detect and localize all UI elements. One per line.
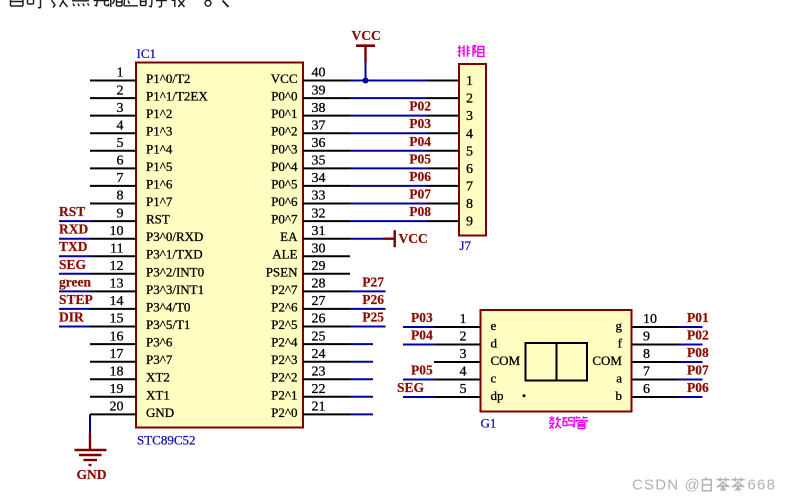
IC IC1 STC89C52 body <box>136 46 303 448</box>
svg-text:15: 15 <box>110 312 124 327</box>
svg-text:GND: GND <box>77 467 107 482</box>
wire stub pin 22 <box>350 396 373 398</box>
7-segment display G1 (数码管) body <box>481 310 632 431</box>
svg-text:16: 16 <box>110 329 124 344</box>
wire pin 34 to J7 <box>350 169 431 186</box>
G1 pin 2 (d) <box>435 330 498 351</box>
wire + net label P27 <box>350 274 386 291</box>
G1 decimal point dot <box>523 394 526 397</box>
svg-text:26: 26 <box>312 312 326 327</box>
svg-text:35: 35 <box>312 154 326 169</box>
IC1 pin 11 (P3^1/TXD) <box>90 241 203 261</box>
svg-text:CSDN @: CSDN @ <box>632 477 701 494</box>
IC1 pin 12 (P3^2/INT0) <box>90 259 204 279</box>
svg-text:green: green <box>59 274 91 289</box>
IC1 pin 22 (P2^1) <box>271 382 350 402</box>
wire EA to VCC <box>350 238 383 240</box>
svg-text:f: f <box>618 336 623 351</box>
svg-text:P0^6: P0^6 <box>271 194 298 209</box>
svg-text:38: 38 <box>312 101 326 116</box>
wire + net label P07 <box>679 363 709 380</box>
svg-text:EA: EA <box>280 229 298 244</box>
svg-text:P0^3: P0^3 <box>271 141 297 156</box>
wire + net label SEG <box>59 257 90 274</box>
svg-text:3: 3 <box>460 347 467 362</box>
IC1 pin 13 (P3^3/INT1) <box>90 277 204 297</box>
G1 digit glyph rectangle <box>526 343 588 381</box>
svg-text:d: d <box>491 336 498 351</box>
J7 pin 7 <box>427 180 473 195</box>
svg-text:P05: P05 <box>409 151 431 166</box>
svg-text:5: 5 <box>466 144 473 159</box>
svg-text:19: 19 <box>110 382 124 397</box>
wire + net label RST <box>59 204 90 221</box>
svg-text:3: 3 <box>466 109 473 124</box>
resistor network J7 (排阻) body <box>459 64 486 253</box>
svg-text:RST: RST <box>146 212 170 227</box>
wire pin 32 to J7 <box>350 204 431 221</box>
IC1 pin 18 (XT2) <box>90 364 170 384</box>
IC1 pin 24 (P2^3) <box>271 347 350 367</box>
wire pin 35 to J7 <box>350 151 431 168</box>
power VCC (top) <box>352 28 381 81</box>
G1 pin 3 (COM) <box>434 347 521 368</box>
svg-text:COM: COM <box>592 353 622 368</box>
svg-text:RST: RST <box>59 204 85 219</box>
IC1 pin 26 (P2^5) <box>271 312 350 332</box>
svg-text:P2^7: P2^7 <box>271 282 298 297</box>
wire stub pin 21 <box>350 413 373 415</box>
svg-text:1: 1 <box>466 74 473 89</box>
svg-text:b: b <box>616 388 623 403</box>
svg-text:P0^5: P0^5 <box>271 176 297 191</box>
svg-text:P1^7: P1^7 <box>146 194 173 209</box>
svg-text:P06: P06 <box>409 169 431 184</box>
svg-text:20: 20 <box>110 400 124 415</box>
IC1 pin 7 (P1^6) <box>90 171 173 191</box>
svg-text:P3^5/T1: P3^5/T1 <box>146 317 190 332</box>
wire + net label P06 <box>679 380 709 397</box>
IC1 pin 1 (P1^0/T2) <box>90 66 190 86</box>
svg-text:P25: P25 <box>362 310 384 325</box>
wire + net label SEG <box>397 380 435 397</box>
svg-text:P0^4: P0^4 <box>271 159 298 174</box>
G1 pin 1 (e) <box>435 312 497 333</box>
svg-text:P03: P03 <box>409 116 431 131</box>
IC1 pin 8 (P1^7) <box>90 189 173 209</box>
IC1 pin 2 (P1^1/T2EX) <box>90 83 208 103</box>
svg-text:a: a <box>616 371 622 386</box>
svg-text:10: 10 <box>110 224 124 239</box>
svg-text:P04: P04 <box>411 328 433 343</box>
IC1 pin 23 (P2^2) <box>271 364 350 384</box>
svg-text:P2^0: P2^0 <box>271 405 297 420</box>
svg-text:668: 668 <box>748 477 777 494</box>
J7 pin 6 <box>427 162 473 177</box>
svg-text:P08: P08 <box>409 204 431 219</box>
IC1 pin 3 (P1^2) <box>90 101 172 121</box>
G1 pin 4 (c) <box>435 365 497 386</box>
svg-text:IC1: IC1 <box>137 46 157 61</box>
wire pin20 to ground <box>89 414 91 433</box>
IC1 pin 15 (P3^5/T1) <box>90 312 190 332</box>
svg-text:VCC: VCC <box>399 231 428 246</box>
svg-text:P0^1: P0^1 <box>271 106 297 121</box>
IC1 pin 20 (GND) <box>90 400 174 420</box>
svg-text:P2^3: P2^3 <box>271 352 297 367</box>
IC1 pin 33 (P0^6) <box>271 189 350 209</box>
power VCC (EA pull) <box>383 230 428 247</box>
svg-text:P02: P02 <box>409 99 431 114</box>
svg-text:4: 4 <box>117 118 124 133</box>
svg-text:P1^0/T2: P1^0/T2 <box>146 71 190 86</box>
svg-text:P3^0/RXD: P3^0/RXD <box>146 229 203 244</box>
svg-text:7: 7 <box>466 180 473 195</box>
wire + net label P02 <box>679 328 709 345</box>
svg-text:dp: dp <box>491 388 504 403</box>
wire + net label P04 <box>403 328 435 345</box>
svg-text:PSEN: PSEN <box>266 264 298 279</box>
svg-text:2: 2 <box>460 330 467 345</box>
svg-text:34: 34 <box>312 171 326 186</box>
J7 pin 1 <box>427 74 473 89</box>
svg-text:TXD: TXD <box>59 239 88 254</box>
svg-text:XT2: XT2 <box>146 370 170 385</box>
svg-text:P3^4/T0: P3^4/T0 <box>146 299 190 314</box>
svg-text:P05: P05 <box>411 363 433 378</box>
wire + net label P05 <box>403 363 435 380</box>
IC1 pin 40 (VCC) <box>271 66 350 86</box>
wire + net label P25 <box>350 310 386 327</box>
wire + net label STEP <box>59 292 93 309</box>
svg-text:33: 33 <box>312 189 326 204</box>
IC1 pin 16 (P3^6) <box>90 329 173 349</box>
J7 pin 9 <box>427 215 473 230</box>
label 排阻 (resistor pack) <box>458 45 470 57</box>
svg-text:37: 37 <box>312 118 326 133</box>
J7 pin 3 <box>427 109 473 124</box>
wire + net label RXD <box>59 222 90 239</box>
J7 pin 5 <box>427 144 473 159</box>
IC1 pin 31 (EA) <box>280 224 350 244</box>
svg-text:11: 11 <box>110 241 123 256</box>
svg-text:9: 9 <box>643 330 650 345</box>
svg-text:40: 40 <box>312 66 326 81</box>
G1 pin 5 (dp) <box>435 382 504 403</box>
svg-text:32: 32 <box>312 206 326 221</box>
svg-text:P0^7: P0^7 <box>271 212 298 227</box>
IC1 pin 27 (P2^6) <box>271 294 350 314</box>
wire + net label P01 <box>679 310 709 327</box>
IC1 pin 30 (ALE) <box>272 241 350 261</box>
svg-text:12: 12 <box>110 259 124 274</box>
svg-text:STC89C52: STC89C52 <box>137 433 196 448</box>
svg-text:9: 9 <box>117 206 124 221</box>
svg-text:28: 28 <box>312 277 326 292</box>
svg-text:c: c <box>491 371 497 386</box>
svg-text:g: g <box>616 318 623 333</box>
wire pin 33 to J7 <box>350 187 431 204</box>
svg-text:5: 5 <box>117 136 124 151</box>
svg-text:P2^2: P2^2 <box>271 370 297 385</box>
IC1 pin 4 (P1^3) <box>90 118 172 138</box>
svg-text:8: 8 <box>466 197 473 212</box>
wire stub pin 23 <box>350 378 373 380</box>
svg-text:P1^2: P1^2 <box>146 106 172 121</box>
svg-text:30: 30 <box>312 241 326 256</box>
svg-text:6: 6 <box>466 162 473 177</box>
svg-text:P04: P04 <box>409 134 431 149</box>
svg-text:ALE: ALE <box>272 247 297 262</box>
G1 pin 8 (COM) <box>592 347 678 368</box>
svg-text:SEG: SEG <box>59 257 87 272</box>
svg-text:6: 6 <box>643 382 650 397</box>
wire stub pin 24 <box>350 361 373 363</box>
svg-text:P1^6: P1^6 <box>146 176 173 191</box>
svg-text:39: 39 <box>312 83 326 98</box>
IC1 pin 5 (P1^4) <box>90 136 173 156</box>
svg-text:P07: P07 <box>687 363 709 378</box>
IC1 pin 38 (P0^1) <box>271 101 350 121</box>
svg-text:7: 7 <box>643 365 650 380</box>
wire pin 40 to J7 <box>350 80 427 82</box>
G1 pin 7 (a) <box>616 365 678 386</box>
wire + net label P03 <box>403 310 435 327</box>
svg-text:P03: P03 <box>411 310 433 325</box>
svg-text:P0^0: P0^0 <box>271 89 297 104</box>
svg-text:2: 2 <box>466 92 473 107</box>
svg-text:P3^2/INT0: P3^2/INT0 <box>146 264 204 279</box>
svg-text:24: 24 <box>312 347 326 362</box>
G1 pin 9 (f) <box>618 330 679 351</box>
svg-text:J7: J7 <box>460 238 472 253</box>
G1 pin 6 (b) <box>616 382 679 403</box>
IC1 pin 10 (P3^0/RXD) <box>90 224 203 244</box>
J7 pin 8 <box>427 197 473 212</box>
svg-text:P02: P02 <box>687 328 709 343</box>
svg-text:10: 10 <box>643 312 657 327</box>
svg-text:P2^5: P2^5 <box>271 317 297 332</box>
svg-text:VCC: VCC <box>271 71 298 86</box>
svg-text:P3^1/TXD: P3^1/TXD <box>146 247 203 262</box>
G1 pin 10 (g) <box>616 312 679 333</box>
svg-text:e: e <box>491 318 497 333</box>
IC1 pin 21 (P2^0) <box>271 400 350 420</box>
svg-text:21: 21 <box>312 400 326 415</box>
IC1 pin 34 (P0^5) <box>271 171 350 191</box>
wire pin 37 to J7 <box>350 116 431 133</box>
svg-text:COM: COM <box>491 353 521 368</box>
svg-text:8: 8 <box>117 189 124 204</box>
IC1 pin 37 (P0^2) <box>271 118 350 138</box>
wire + net label TXD <box>59 239 90 256</box>
IC1 pin 17 (P3^7) <box>90 347 173 367</box>
IC1 pin 19 (XT1) <box>90 382 170 402</box>
svg-text:P2^4: P2^4 <box>271 335 298 350</box>
IC1 pin 9 (RST) <box>90 206 170 226</box>
svg-text:VCC: VCC <box>352 28 381 43</box>
IC1 pin 35 (P0^4) <box>271 154 350 174</box>
junction (VCC / pin40) <box>363 78 369 84</box>
svg-text:P08: P08 <box>687 345 709 360</box>
IC1 pin 32 (P0^7) <box>271 206 350 226</box>
svg-text:29: 29 <box>312 259 326 274</box>
svg-text:P2^6: P2^6 <box>271 299 298 314</box>
svg-text:P1^4: P1^4 <box>146 141 173 156</box>
svg-text:RXD: RXD <box>59 222 88 237</box>
label 数码管 (digit display) <box>549 416 561 428</box>
svg-text:SEG: SEG <box>397 380 425 395</box>
clipped caption text (bottom of Chinese sentence) <box>11 0 229 8</box>
wire + net label DIR <box>59 310 90 327</box>
svg-text:4: 4 <box>466 127 473 142</box>
svg-text:P2^1: P2^1 <box>271 387 297 402</box>
svg-text:GND: GND <box>146 405 174 420</box>
wire pin 39 to J7 <box>350 97 427 99</box>
svg-text:G1: G1 <box>481 416 497 431</box>
svg-text:P1^1/T2EX: P1^1/T2EX <box>146 89 208 104</box>
watermark CSDN @白茶茶668 <box>632 477 776 494</box>
svg-text:25: 25 <box>312 329 326 344</box>
svg-text:P0^2: P0^2 <box>271 124 297 139</box>
ground GND <box>75 433 107 482</box>
svg-text:18: 18 <box>110 364 124 379</box>
IC1 pin 39 (P0^0) <box>271 83 350 103</box>
svg-text:5: 5 <box>460 382 467 397</box>
svg-text:8: 8 <box>643 347 650 362</box>
svg-text:P1^5: P1^5 <box>146 159 172 174</box>
J7 pin 2 <box>427 92 473 107</box>
svg-text:P3^6: P3^6 <box>146 335 173 350</box>
svg-text:P3^7: P3^7 <box>146 352 173 367</box>
svg-text:23: 23 <box>312 364 326 379</box>
svg-text:P26: P26 <box>362 292 384 307</box>
svg-text:14: 14 <box>110 294 124 309</box>
svg-text:P3^3/INT1: P3^3/INT1 <box>146 282 204 297</box>
svg-text:P01: P01 <box>687 310 709 325</box>
IC1 pin 29 (PSEN) <box>266 259 350 279</box>
svg-text:P06: P06 <box>687 380 709 395</box>
wire pin 36 to J7 <box>350 134 431 151</box>
svg-text:13: 13 <box>110 277 124 292</box>
svg-text:36: 36 <box>312 136 326 151</box>
svg-text:6: 6 <box>117 154 124 169</box>
wire + net label P26 <box>350 292 386 309</box>
svg-text:7: 7 <box>117 171 124 186</box>
IC1 pin 25 (P2^4) <box>271 329 350 349</box>
svg-text:STEP: STEP <box>59 292 93 307</box>
IC1 pin 36 (P0^3) <box>271 136 350 156</box>
wire pin 38 to J7 <box>350 99 431 116</box>
wire + net label green <box>59 274 91 291</box>
svg-text:DIR: DIR <box>59 310 84 325</box>
svg-text:1: 1 <box>117 66 124 81</box>
svg-text:2: 2 <box>117 83 124 98</box>
svg-text:P07: P07 <box>409 187 431 202</box>
wire stub pin 25 <box>350 343 373 345</box>
svg-text:P27: P27 <box>362 274 384 289</box>
svg-text:17: 17 <box>110 347 124 362</box>
svg-text:22: 22 <box>312 382 326 397</box>
svg-text:9: 9 <box>466 215 473 230</box>
J7 pin 4 <box>427 127 473 142</box>
svg-text:27: 27 <box>312 294 326 309</box>
svg-text:31: 31 <box>312 224 326 239</box>
svg-text:XT1: XT1 <box>146 387 170 402</box>
wire + net label P08 <box>679 345 709 362</box>
svg-text:4: 4 <box>460 365 467 380</box>
IC1 pin 14 (P3^4/T0) <box>90 294 190 314</box>
svg-text:1: 1 <box>460 312 467 327</box>
svg-text:P1^3: P1^3 <box>146 124 172 139</box>
svg-text:3: 3 <box>117 101 124 116</box>
IC1 pin 28 (P2^7) <box>271 277 350 297</box>
IC1 pin 6 (P1^5) <box>90 154 172 174</box>
